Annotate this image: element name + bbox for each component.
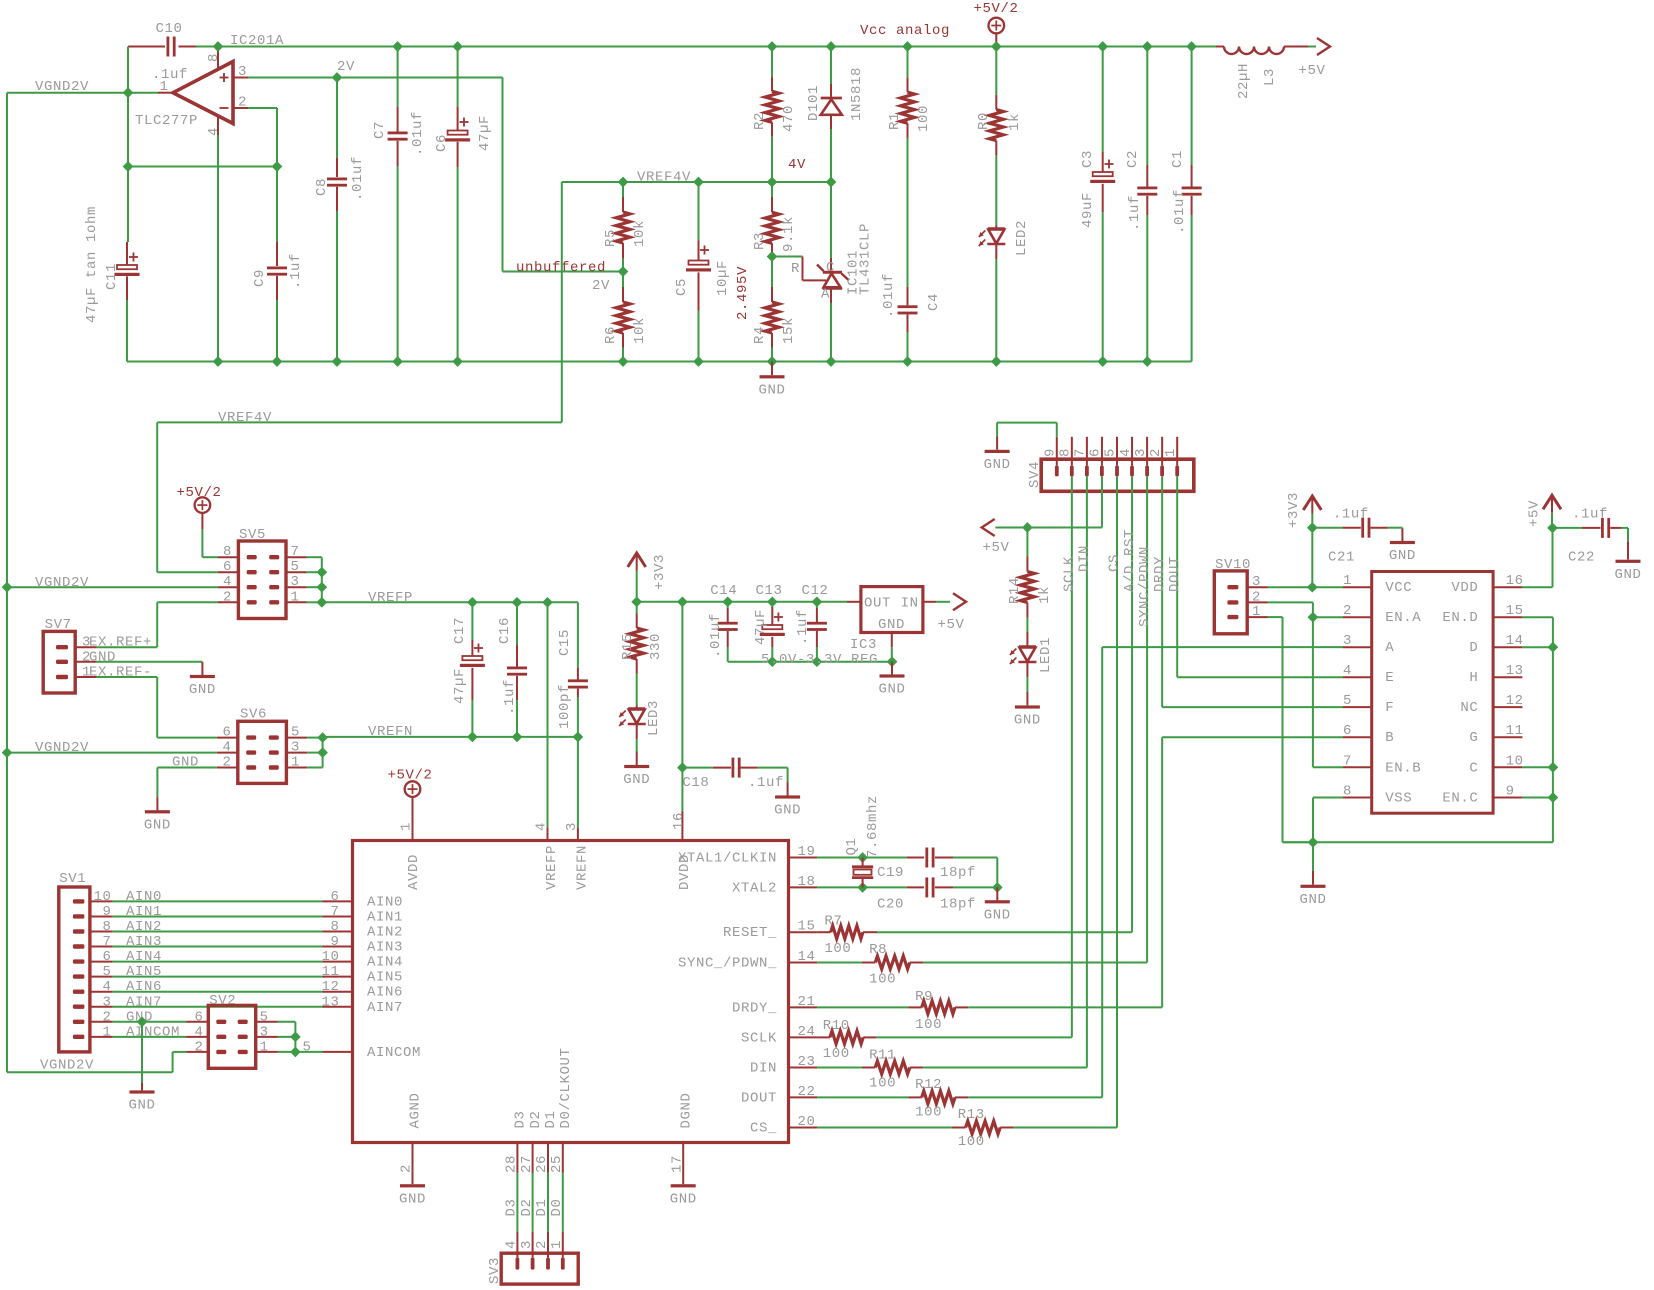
ground symbol switch IC [1301, 885, 1326, 888]
junction VREFP pin4 [543, 598, 553, 608]
svg-text:100: 100 [915, 1105, 942, 1121]
svg-text:DIN: DIN [1077, 545, 1093, 572]
ground symbol SV7 [190, 675, 215, 678]
svg-text:TLC277P: TLC277P [135, 113, 198, 129]
op-amp pin 1 output [158, 92, 173, 94]
junction C15 bottom VREFN [573, 732, 583, 742]
capacitor C9 [276, 242, 278, 266]
wire SCLK from SV4 pin8 [1071, 476, 1073, 1037]
junction R2/R3 4V [767, 177, 777, 187]
wire unbuffered horizontal [503, 271, 624, 273]
wire SV5 right bus [307, 556, 322, 558]
svg-text:C15: C15 [557, 629, 573, 656]
svg-text:100: 100 [869, 1075, 896, 1091]
svg-text:28: 28 [504, 1155, 520, 1173]
svg-text:2: 2 [238, 95, 247, 111]
svg-text:R: R [791, 261, 800, 277]
svg-text:.01uf: .01uf [1172, 189, 1188, 234]
wire caps bottom rail to IC3 GND [728, 661, 892, 663]
svg-text:DOUT: DOUT [1167, 556, 1183, 592]
junction C7 top [393, 42, 403, 52]
svg-text:.1uf: .1uf [1127, 195, 1143, 231]
svg-text:VSS: VSS [1385, 791, 1412, 807]
svg-text:R3: R3 [752, 232, 768, 250]
svg-text:R10: R10 [823, 1018, 850, 1034]
svg-text:AIN7: AIN7 [126, 994, 162, 1010]
svg-text:C3: C3 [1080, 150, 1096, 168]
TL431 cathode tick [817, 265, 824, 272]
svg-text:D3: D3 [513, 1110, 529, 1128]
wire SV6 pin2 to ground [157, 767, 217, 769]
junction C13 top [768, 597, 778, 607]
op-amp pin 3 noninverting [233, 77, 248, 79]
svg-text:D101: D101 [806, 85, 822, 121]
svg-text:DGND: DGND [678, 1092, 694, 1128]
wire SV5 pin2 to SV7 [157, 601, 218, 603]
wire SV1 AINCOM row [113, 1036, 187, 1038]
connector SV3 [501, 1253, 578, 1284]
wire CS from SV4 pin5 [1116, 476, 1118, 1127]
wire 2V down to unbuffered [502, 78, 504, 272]
junction +3V3 C21 [1308, 523, 1318, 533]
capacitor C21 [1312, 527, 1342, 529]
svg-text:GND: GND [1299, 892, 1326, 908]
junction IC3 GND [887, 657, 897, 667]
junction C row [1548, 763, 1558, 773]
svg-text:10: 10 [321, 949, 339, 965]
junction R1 top rail [903, 42, 913, 52]
junction feedback left [123, 162, 133, 172]
svg-text:5: 5 [102, 964, 111, 980]
wire VREF4V to SV5 pin6 [157, 571, 218, 573]
svg-text:AIN0: AIN0 [367, 894, 403, 910]
svg-text:8: 8 [223, 544, 232, 560]
svg-text:4: 4 [194, 1024, 203, 1040]
svg-text:13: 13 [1506, 663, 1524, 679]
resistor R14 [1026, 528, 1028, 557]
svg-text:8: 8 [330, 919, 339, 935]
wire +3V3 rail [637, 601, 847, 603]
svg-text:100pf: 100pf [557, 684, 573, 729]
svg-text:2: 2 [1148, 448, 1164, 457]
svg-text:100: 100 [916, 105, 932, 132]
wire VDD row to +5V [1522, 586, 1552, 588]
svg-text:4V: 4V [788, 157, 806, 173]
svg-text:2: 2 [399, 1164, 415, 1173]
wire A row to R12 output [1102, 646, 1343, 648]
svg-text:1: 1 [291, 589, 300, 605]
svg-text:AIN7: AIN7 [367, 1000, 403, 1016]
op-amp pin 4 power [217, 116, 219, 136]
resistor R5 [622, 182, 624, 197]
svg-text:R13: R13 [958, 1107, 985, 1123]
svg-text:C8: C8 [314, 178, 330, 196]
junction VGND2V left bus SV6 [2, 748, 12, 758]
wire +5V row to R14 [995, 527, 1102, 529]
resistor R13 [817, 1127, 952, 1129]
junction bottom rail op-amp pin4 [213, 357, 223, 367]
ground symbol C19 C20 [985, 900, 1010, 903]
junction SV5 pin3 [317, 582, 327, 592]
junction C20 GND [993, 883, 1003, 893]
crystal Q1 7.68mhz [862, 858, 864, 867]
wire C row [1522, 766, 1553, 768]
wire SV10 pin1 to VSS net [1268, 616, 1283, 618]
svg-text:.01uf: .01uf [410, 111, 426, 156]
svg-text:R14: R14 [1007, 577, 1023, 604]
svg-text:7: 7 [1343, 753, 1352, 769]
wire feedback cross link [127, 166, 277, 168]
wire from C10 to VGND2V net [127, 47, 129, 93]
svg-text:47µF: 47µF [477, 115, 493, 151]
svg-text:8: 8 [102, 919, 111, 935]
svg-text:SCLK: SCLK [1062, 556, 1078, 592]
connector SV7 [43, 631, 75, 693]
ground symbol C18 [775, 795, 800, 798]
junction C12 top [812, 597, 822, 607]
svg-text:GND: GND [623, 772, 650, 788]
svg-text:C7: C7 [372, 121, 388, 139]
svg-text:20: 20 [797, 1114, 815, 1130]
svg-text:6: 6 [222, 725, 231, 741]
svg-text:Q1: Q1 [844, 837, 860, 855]
svg-text:2V: 2V [337, 59, 355, 75]
svg-text:SYNC_/PDWN_: SYNC_/PDWN_ [678, 956, 777, 972]
svg-text:C16: C16 [497, 617, 513, 644]
svg-text:4: 4 [504, 1240, 520, 1249]
wire SV4 pin9 to GND [1056, 423, 1058, 437]
svg-text:SV7: SV7 [45, 617, 72, 633]
svg-text:14: 14 [797, 949, 815, 965]
junction C17 top [468, 598, 478, 608]
svg-text:DRDY: DRDY [1152, 556, 1168, 592]
svg-text:+3V3: +3V3 [652, 554, 668, 590]
svg-text:24: 24 [797, 1024, 815, 1040]
svg-text:E: E [1385, 670, 1394, 686]
svg-text:8: 8 [206, 53, 222, 62]
wire VREFN to ADC pin3 [577, 737, 579, 828]
svg-text:2: 2 [1252, 589, 1261, 605]
ADC bottom pin 2 AGND [412, 1143, 414, 1185]
svg-text:3: 3 [238, 64, 247, 80]
svg-text:C21: C21 [1328, 550, 1355, 566]
svg-text:100: 100 [958, 1134, 985, 1150]
svg-text:AIN5: AIN5 [126, 964, 162, 980]
svg-text:GND: GND [984, 907, 1011, 923]
svg-text:IN: IN [901, 596, 919, 612]
junction C6 top [453, 42, 463, 52]
capacitor C7 [397, 47, 399, 108]
ground symbol top section [771, 362, 773, 376]
svg-text:XTAL1/CLKIN: XTAL1/CLKIN [678, 851, 777, 867]
svg-text:DIN: DIN [750, 1061, 777, 1077]
connector SV10 [1214, 571, 1247, 634]
svg-text:9: 9 [102, 904, 111, 920]
LED LED1 [1026, 632, 1028, 647]
wire DVDD column [681, 602, 683, 768]
resistor R7 [817, 931, 830, 933]
svg-text:330: 330 [648, 633, 664, 660]
svg-text:25: 25 [549, 1155, 565, 1173]
svg-text:EN.D: EN.D [1442, 610, 1478, 626]
wire D row [1522, 646, 1553, 648]
capacitor C11 [126, 242, 128, 265]
junction R5 top VREF4V [618, 177, 628, 187]
junction D row [1548, 642, 1558, 652]
svg-text:RESET_: RESET_ [723, 925, 777, 941]
svg-text:4: 4 [102, 979, 111, 995]
svg-text:5: 5 [291, 559, 300, 575]
svg-text:C: C [1469, 760, 1478, 776]
svg-text:GND: GND [144, 817, 171, 833]
wire SV7 pin2 to ground [97, 661, 203, 663]
svg-text:100: 100 [915, 1017, 942, 1033]
IC3 GND pin [891, 633, 893, 648]
junction VGND2V left bus SV5 [2, 582, 12, 592]
wire SV2 right bus [294, 1022, 296, 1052]
capacitor C10 [128, 46, 165, 48]
svg-text:7: 7 [102, 934, 111, 950]
junction SV2 pin3 [291, 1032, 301, 1042]
junction LED2 bottom [992, 357, 1002, 367]
svg-text:1: 1 [1163, 448, 1179, 457]
junction R5/R6 2V [618, 267, 628, 277]
svg-text:3: 3 [260, 1024, 269, 1040]
svg-text:4: 4 [206, 127, 222, 136]
junction bottom rail R6 [618, 357, 628, 367]
junction R14 +5V [1023, 523, 1033, 533]
svg-text:Vcc analog: Vcc analog [860, 23, 950, 39]
svg-text:C14: C14 [710, 583, 737, 599]
svg-text:B: B [1385, 730, 1394, 746]
svg-text:4: 4 [223, 574, 232, 590]
wire SV10 pin3 VCC row [1268, 586, 1344, 588]
wire SV7 pin1 EX.REF- net [97, 676, 157, 678]
ADC right pin stubs [789, 857, 818, 859]
wire VREF4V down-left link [561, 182, 563, 422]
svg-text:LED1: LED1 [1038, 637, 1054, 673]
svg-text:VREFP: VREFP [544, 845, 560, 890]
svg-text:GND: GND [878, 682, 905, 698]
svg-text:AINCOM: AINCOM [367, 1045, 421, 1061]
svg-text:47µF: 47µF [452, 668, 468, 704]
junction R0 top rail [992, 42, 1002, 52]
svg-text:49uF: 49uF [1080, 192, 1096, 228]
svg-text:1: 1 [260, 1039, 269, 1055]
svg-text:1: 1 [159, 79, 168, 95]
svg-text:5: 5 [291, 725, 300, 741]
svg-text:XTAL2: XTAL2 [732, 880, 777, 896]
resistor R0 [995, 47, 997, 96]
op-amp pin 8 power [217, 47, 219, 70]
ADC pin 4 VREFP [547, 827, 549, 840]
ground symbol C22 [1616, 560, 1641, 563]
connector SV4 [1041, 459, 1194, 491]
svg-text:DRDY_: DRDY_ [732, 1000, 777, 1016]
svg-text:3: 3 [1252, 574, 1261, 590]
resistor R4 [771, 257, 773, 288]
svg-text:R12: R12 [915, 1077, 942, 1093]
svg-text:17: 17 [669, 1155, 685, 1173]
junction C16 bottom [512, 732, 522, 742]
svg-text:VREFP: VREFP [368, 590, 413, 606]
ADC bottom pin 17 DGND [682, 1143, 684, 1185]
svg-text:19: 19 [797, 844, 815, 860]
wire VSS row to ground [1313, 797, 1343, 799]
svg-text:1: 1 [549, 1240, 565, 1249]
svg-text:GND: GND [774, 803, 801, 819]
svg-text:AIN3: AIN3 [367, 940, 403, 956]
junction R4 bottom [767, 357, 777, 367]
svg-text:13: 13 [321, 994, 339, 1010]
svg-text:7: 7 [330, 904, 339, 920]
svg-text:IC3: IC3 [850, 637, 877, 653]
svg-text:EX.REF-: EX.REF- [89, 665, 152, 681]
junction TL431 bottom [826, 357, 836, 367]
wire EN.A row [1313, 616, 1343, 618]
svg-text:SCLK: SCLK [741, 1030, 777, 1046]
wire VGND2V bottom link [7, 1071, 173, 1073]
junction VCC +3V3 [1308, 582, 1318, 592]
svg-text:2: 2 [102, 1009, 111, 1025]
TL431 anode tick [842, 274, 849, 281]
wire 2V net from pin3 [248, 77, 503, 79]
capacitor C4 [907, 287, 909, 306]
diode D101 1N5818 [830, 47, 832, 85]
svg-text:GND: GND [1614, 567, 1641, 583]
ground symbol SV4 [985, 450, 1010, 453]
svg-text:AIN4: AIN4 [126, 949, 162, 965]
svg-text:21: 21 [797, 994, 815, 1010]
svg-text:IC201A: IC201A [230, 33, 284, 49]
ground symbol DGND [671, 1184, 696, 1187]
wire C11 column upper [127, 93, 129, 242]
wire VREFN [323, 736, 578, 738]
wire EN.B row [1313, 766, 1343, 768]
wire EN.A to EN.B vertical [1312, 617, 1314, 767]
svg-text:1: 1 [291, 755, 300, 771]
svg-text:10: 10 [93, 889, 111, 905]
wire VREFP to ADC pin4 [547, 602, 549, 827]
power symbol +5V at C22 [1543, 495, 1561, 509]
svg-text:27: 27 [519, 1155, 535, 1173]
svg-text:+3V3: +3V3 [1286, 492, 1302, 528]
svg-text:A: A [821, 287, 830, 303]
svg-text:AIN3: AIN3 [126, 934, 162, 950]
svg-text:9: 9 [1506, 784, 1515, 800]
svg-text:R5: R5 [603, 229, 619, 247]
svg-text:+5V/2: +5V/2 [973, 1, 1018, 17]
junction 2V at C8 [332, 73, 342, 83]
wire EN.D row [1522, 616, 1553, 618]
svg-text:GND: GND [189, 682, 216, 698]
svg-text:10µF: 10µF [715, 260, 731, 296]
svg-text:TL431CLP: TL431CLP [858, 223, 874, 295]
svg-text:A: A [1385, 640, 1394, 656]
svg-text:6: 6 [223, 559, 232, 575]
junction C4 bottom [903, 357, 913, 367]
svg-text:6: 6 [330, 889, 339, 905]
svg-text:R8: R8 [869, 942, 887, 958]
svg-text:AIN5: AIN5 [367, 970, 403, 986]
capacitor C13 [771, 602, 773, 607]
op-amp plus mark pin3 [220, 77, 229, 79]
svg-text:16: 16 [1506, 573, 1524, 589]
op-amp minus mark pin2 [220, 107, 229, 109]
svg-text:R1: R1 [887, 112, 903, 130]
svg-text:1: 1 [399, 822, 415, 831]
svg-text:C6: C6 [434, 134, 450, 152]
wire pin2 feedback [248, 107, 277, 109]
svg-text:SV2: SV2 [209, 993, 236, 1009]
svg-text:2: 2 [534, 1240, 550, 1249]
svg-text:22µH: 22µH [1236, 63, 1252, 99]
svg-text:15k: 15k [781, 317, 797, 344]
junction EN.A [1308, 612, 1318, 622]
junction ground bus [1308, 838, 1318, 848]
svg-text:D2: D2 [528, 1110, 544, 1128]
svg-text:1k: 1k [1037, 586, 1053, 604]
junction C1 top rail [1187, 42, 1197, 52]
junction bottom rail C8 [332, 357, 342, 367]
svg-text:AIN0: AIN0 [126, 889, 162, 905]
svg-text:14: 14 [1506, 633, 1524, 649]
ground symbol SV6 [145, 810, 170, 813]
connector SV2 [208, 1005, 255, 1068]
svg-text:2: 2 [1343, 603, 1352, 619]
svg-text:3: 3 [564, 822, 580, 831]
svg-text:C1: C1 [1170, 150, 1186, 168]
svg-text:AVDD: AVDD [406, 854, 422, 890]
svg-text:OUT: OUT [864, 596, 891, 612]
svg-text:10: 10 [1506, 753, 1524, 769]
svg-text:SV4: SV4 [1027, 461, 1043, 488]
svg-text:18pf: 18pf [940, 897, 976, 913]
wire B row to R9 output [1162, 736, 1343, 738]
svg-text:EN.B: EN.B [1385, 760, 1421, 776]
resistor R6 [622, 272, 624, 288]
wires AIN0-AIN7 [113, 900, 323, 902]
net arrow +5V at IC3 [953, 593, 966, 610]
svg-text:C13: C13 [755, 583, 782, 599]
svg-text:GND: GND [878, 617, 905, 633]
svg-text:23: 23 [797, 1054, 815, 1070]
svg-text:C2: C2 [1125, 150, 1141, 168]
svg-text:9: 9 [1043, 448, 1059, 457]
junction C13 bottom [768, 657, 778, 667]
svg-text:NC: NC [1460, 700, 1478, 716]
capacitor C1 [1191, 47, 1193, 166]
junction feedback right [272, 162, 282, 172]
svg-text:C9: C9 [252, 269, 268, 287]
svg-text:8: 8 [1343, 784, 1352, 800]
svg-text:AIN2: AIN2 [367, 925, 403, 941]
svg-text:.01uf: .01uf [708, 613, 724, 658]
svg-text:7.68mhz: 7.68mhz [865, 795, 881, 858]
svg-text:R0: R0 [976, 112, 992, 130]
capacitor C15 [577, 602, 579, 668]
svg-text:5.0V-3.3V REG: 5.0V-3.3V REG [761, 652, 878, 668]
IC ADC box [353, 841, 789, 1143]
wire SV7 pin3 EX.REF+ net [97, 646, 157, 648]
capacitor C3 [1102, 47, 1104, 153]
svg-text:100: 100 [869, 972, 896, 988]
svg-text:10k: 10k [632, 317, 648, 344]
power symbol +3V3 at R15 [628, 553, 646, 567]
svg-text:2: 2 [223, 589, 232, 605]
svg-text:GND: GND [758, 382, 785, 398]
svg-text:AIN1: AIN1 [367, 909, 403, 925]
